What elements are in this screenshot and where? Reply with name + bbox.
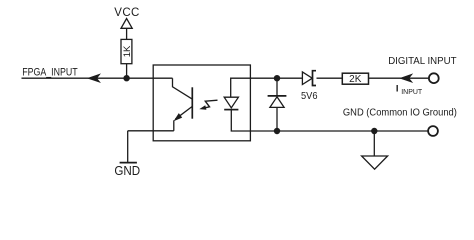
wire resistor R2 to digital input terminal (369, 77, 429, 79)
svg-text:2K: 2K (349, 74, 362, 85)
wire LED cathode bottom lead (231, 110, 277, 131)
ground symbol (IO side, open triangle) (362, 156, 388, 169)
LED D1 inside optocoupler (pointing down) (224, 97, 238, 108)
wire ground symbol riser (IO ground) (373, 131, 375, 156)
svg-text:INPUT: INPUT (401, 89, 423, 96)
wire resistor R1 bottom lead (126, 64, 128, 78)
zener diode D3 5V6 (horizontal) (302, 72, 312, 85)
node junction dot (resistor to FPGA wire) (123, 75, 129, 81)
wire zener to resistor R2 (317, 77, 343, 79)
terminal circle (IO ground) (428, 126, 438, 136)
wire LED anode to right side (231, 78, 303, 97)
node junction dot (top right net) (274, 75, 280, 81)
svg-text:VCC: VCC (114, 7, 139, 19)
light arrow (LED to transistor) (205, 100, 218, 108)
svg-text:GND: GND (114, 163, 140, 178)
wire FPGA_INPUT net (left horizontal) (22, 77, 173, 79)
transistor Q1 emitter lead with arrow (174, 106, 193, 130)
svg-text:FPGA_INPUT: FPGA_INPUT (22, 66, 78, 78)
arrow on digital input wire (pointing left) (400, 74, 412, 82)
wire emitter to GND (bottom-left horizontal) (128, 130, 174, 132)
resistor R2 2K (horizontal box) (342, 73, 368, 84)
transistor Q1 base bar (191, 87, 193, 118)
diode D2 clamp (vertical, cathode up) (270, 97, 284, 108)
svg-text:GND (Common IO Ground): GND (Common IO Ground) (343, 106, 457, 118)
svg-text:DIGITAL INPUT: DIGITAL INPUT (388, 55, 457, 67)
svg-text:5V6: 5V6 (301, 90, 318, 102)
node junction dot (bottom right net) (274, 128, 280, 134)
resistor R1 1K (vertical box) (121, 39, 132, 63)
arrow on FPGA_INPUT wire (pointing left) (88, 74, 100, 82)
wire bottom-right to IO ground terminal (277, 130, 428, 132)
ground symbol (FPGA side) (120, 162, 137, 164)
node junction dot (IO ground symbol) (371, 128, 377, 134)
svg-text:1K: 1K (122, 45, 133, 57)
wire clamp diode top lead (276, 78, 278, 96)
power symbol VCC (121, 19, 132, 29)
terminal circle (DIGITAL INPUT) (429, 73, 439, 83)
wire GND riser (127, 131, 129, 163)
transistor Q1 phototransistor collector lead (173, 78, 193, 99)
svg-text:I: I (396, 83, 399, 94)
optocoupler U1 body (153, 65, 250, 141)
wire clamp diode bottom lead (276, 107, 278, 131)
wire VCC stem above resistor (126, 28, 128, 39)
